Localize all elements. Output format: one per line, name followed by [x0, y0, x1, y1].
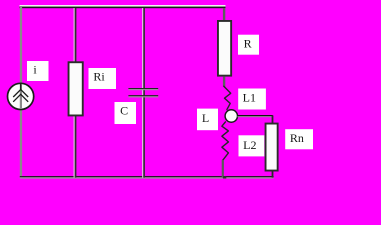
label Rn — [285, 129, 313, 149]
label C — [115, 102, 137, 124]
svg-text:R: R — [244, 37, 252, 51]
node tap — [225, 110, 237, 122]
wire bottom bus — [20, 176, 274, 179]
resistor Ri — [69, 62, 83, 115]
inductor L1 — [224, 86, 231, 109]
svg-text:L2: L2 — [243, 138, 256, 152]
wire R branch top lead — [223, 8, 225, 21]
wire C branch vertical — [142, 8, 145, 178]
inductor L2 — [222, 122, 229, 160]
wire R to L1 — [223, 77, 225, 87]
svg-text:L1: L1 — [243, 91, 256, 105]
label L1 — [238, 89, 266, 110]
wire left vertical — [20, 6, 22, 178]
label L — [197, 109, 218, 131]
resistor Rn — [266, 124, 278, 171]
wire Ri branch vertical — [74, 8, 77, 178]
wire node to Rn — [237, 115, 272, 117]
label R — [238, 35, 259, 55]
resistor R — [218, 21, 231, 76]
svg-text:C: C — [120, 104, 128, 118]
junction L branch / bottom bus — [223, 176, 226, 178]
label Ri — [89, 68, 117, 89]
svg-text:L: L — [202, 111, 209, 125]
wire Rn bottom lead — [272, 171, 274, 178]
wire L2 bottom lead — [222, 160, 224, 178]
wire Rn top lead — [272, 115, 274, 123]
label L2 — [239, 135, 265, 156]
capacitor C — [128, 88, 158, 97]
svg-text:Ri: Ri — [93, 69, 105, 83]
current source I — [8, 83, 34, 109]
label i — [27, 61, 49, 81]
wire top bus — [20, 5, 226, 8]
svg-text:Rn: Rn — [290, 131, 304, 145]
